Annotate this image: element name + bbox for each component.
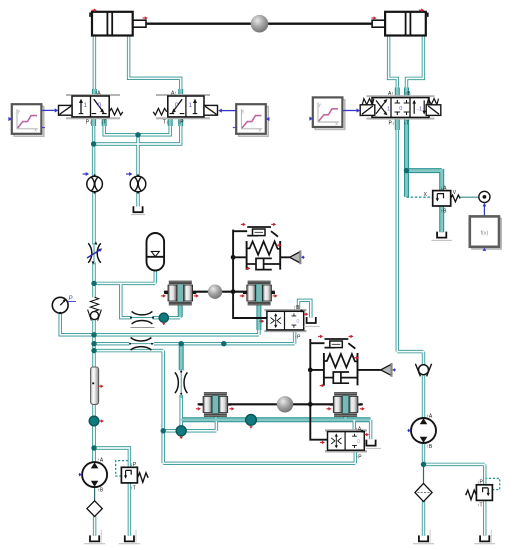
relief valve RV2 body <box>476 485 492 501</box>
svg-text:0: 0 <box>357 439 360 445</box>
wire cylinder2 cap-side to valve V3 port B <box>407 35 424 98</box>
svg-text:P↓: P↓ <box>389 120 395 126</box>
wire pipe element feed <box>92 367 95 370</box>
relief valve RV3 body <box>433 191 451 206</box>
svg-text:A↑: A↑ <box>171 91 177 97</box>
RB2 input marker <box>268 118 271 120</box>
wire orifice OR4 drop to volume <box>179 395 182 431</box>
signal marker of PM2 <box>408 430 409 432</box>
marker arrow at SB2 <box>320 441 323 443</box>
cylinder C1 (double acting) <box>90 12 133 36</box>
ramp source block RB2 <box>236 104 268 136</box>
orifice OR3 (fixed, horizontal) <box>131 338 152 351</box>
svg-text:↑B: ↑B <box>405 91 412 97</box>
marker arrow at C2 body <box>419 9 422 11</box>
tank T7 (pump circuit) <box>90 535 99 541</box>
rod of cylinder C1 (mechanical link) <box>113 20 146 27</box>
tank T6 under RV3 <box>437 232 446 238</box>
valve V1 spring <box>109 108 123 115</box>
svg-text:↓P: ↓P <box>130 462 137 468</box>
svg-text:↑P: ↑P <box>295 335 302 341</box>
signal arrow into F2 <box>395 369 396 371</box>
valve V2 solenoid <box>204 105 218 115</box>
svg-text:0: 0 <box>98 102 102 109</box>
wire CV2 riser <box>422 352 425 365</box>
RB2 aux port <box>233 127 236 129</box>
svg-text:0: 0 <box>296 319 299 325</box>
svg-text:P: P <box>69 296 73 302</box>
wire SB2 port A drop <box>353 420 356 433</box>
tank T1 base <box>131 214 145 216</box>
tank T5 (relief RV2) <box>480 535 489 541</box>
svg-text:P↓: P↓ <box>86 120 92 126</box>
svg-text:↓P: ↓P <box>178 120 185 126</box>
spring SP1 <box>247 241 281 270</box>
valve V1 gray mounts <box>66 94 120 96</box>
wire main down-branch to x163 <box>94 349 163 352</box>
piston block P2R <box>330 392 362 417</box>
ramp source block RB3 <box>313 97 345 129</box>
wire V1 port P to V2 port P (pressure gallery) <box>94 117 181 145</box>
wire P gallery down to flow sensor FS1 <box>92 144 95 177</box>
accumulator AC1 <box>147 233 165 271</box>
wire relief RV2 riser <box>483 464 486 484</box>
valve V1 right cell arrow <box>94 99 103 110</box>
svg-text:V: V <box>453 190 457 196</box>
wire volume node up to piston P1L <box>178 305 181 318</box>
mechanical node line of assembly A2 <box>310 339 327 440</box>
piston block P1L <box>164 281 196 306</box>
wire valve V1 port P stub <box>91 117 96 127</box>
wire SB1 tank link <box>299 300 311 317</box>
valve V3 crossed arrows cell <box>376 99 388 115</box>
baseline under OR2 <box>131 327 155 329</box>
wire tank drop right of SB2 <box>369 420 372 439</box>
link A2 to force source <box>310 369 380 371</box>
valve V1 solenoid <box>59 105 73 115</box>
wire V1 port T to V2 port T (tank gallery) <box>104 117 170 135</box>
orifice OR4 (vertical) <box>175 372 188 393</box>
wire valve V2 port A stub <box>178 89 183 97</box>
flow sensor FS1 <box>87 174 103 194</box>
pipe element PE1 <box>91 367 99 404</box>
pilot line X of relief RV3 (dashed) <box>407 196 433 198</box>
svg-text:↓T: ↓T <box>404 120 410 126</box>
svg-text:↓P: ↓P <box>477 479 484 485</box>
cylinder C2 (double acting, mirrored) <box>385 12 428 36</box>
marker arrow at C1 body <box>92 9 95 11</box>
valve V1 left cell arrow <box>80 102 82 114</box>
wire SB2 port P riser <box>354 450 357 463</box>
marker arrow at PE1 <box>98 385 101 387</box>
wire valve V2 port T stub <box>168 117 173 127</box>
wire cylinder2 rod-side to valve V3 port A <box>389 35 398 98</box>
signal RB2 to valve V2 <box>222 110 237 112</box>
rod through assembly A1 <box>164 291 275 293</box>
tank T2 of SB1 <box>307 317 316 323</box>
valve V3 left solenoid <box>360 105 375 116</box>
spring SP2 <box>324 353 358 385</box>
wire pump PM2 to filter F2 <box>423 466 425 484</box>
wire piston P2R pipe <box>343 416 348 421</box>
RB1 aux port <box>42 127 45 129</box>
wire main line lower section <box>92 404 95 462</box>
marker arrow at D2 <box>320 385 323 387</box>
svg-text:↑T: ↑T <box>477 503 483 509</box>
thin line through OR2 <box>130 317 154 319</box>
wire OR2 to volume node <box>153 316 181 319</box>
relief valve RV1 spring <box>137 473 148 482</box>
signal function block FB1 <box>470 216 501 249</box>
wire filter F1 to tank <box>93 516 96 536</box>
relief valve RV2 spring <box>466 490 477 499</box>
RB1 input marker <box>7 118 10 120</box>
marker arrows at FR1 <box>241 223 244 225</box>
svg-text:T↓: T↓ <box>163 120 169 126</box>
valve V2 gray mounts <box>156 94 210 96</box>
RB3 input marker <box>308 118 311 120</box>
valve V3 left spring <box>362 99 374 105</box>
svg-text:↑B: ↑B <box>426 444 433 450</box>
wire piston P1R pipe <box>256 303 261 330</box>
svg-text:↑P: ↑P <box>356 455 363 461</box>
valve V3 right solenoid <box>426 105 441 116</box>
valve V2 left cell arrow <box>174 99 183 110</box>
friction element FR1 <box>233 227 278 237</box>
wire junction to relief RV2 <box>424 463 485 466</box>
svg-text:↑B: ↑B <box>97 487 104 493</box>
tank T4 (filter F2) <box>419 535 428 541</box>
mass sphere M2 <box>208 285 222 299</box>
wire FS1 down to variable orifice OR1 <box>92 191 95 244</box>
mechanical node line of assembly A1 <box>233 230 267 318</box>
wire valve V1 port A stub <box>92 89 97 97</box>
wire core highlights <box>60 35 485 536</box>
junction nodes <box>91 141 96 146</box>
marker arrows at P2R <box>326 408 329 410</box>
wire main line to piston P1R branch <box>94 333 259 336</box>
valve V2 spring <box>153 108 167 115</box>
svg-text:↑A: ↑A <box>426 414 433 420</box>
orifice OR2 (fixed, horizontal) <box>132 311 153 324</box>
position marker at SB1 <box>304 313 306 315</box>
wire piston P2L pipe <box>214 416 219 421</box>
valve V3 body <box>372 98 429 118</box>
valve V3 blocked centre cell <box>395 100 410 115</box>
friction element FR2 <box>310 339 355 349</box>
svg-text:↑A: ↑A <box>355 426 362 432</box>
piston block P2L <box>199 392 231 417</box>
wire accumulator drop <box>154 270 157 283</box>
marker arrows at P1R <box>240 295 243 297</box>
wire check valve CV1 to main junctions <box>92 320 95 368</box>
pressure gauge PG1 <box>52 297 68 313</box>
svg-text:1: 1 <box>188 102 192 109</box>
svg-text:-1: -1 <box>417 106 422 112</box>
signal RB1 to valve V1 <box>42 109 55 111</box>
wire valve V2 port P stub <box>178 117 183 127</box>
ramp source block RB1 <box>12 104 44 136</box>
signal line block FB1 to S1 <box>483 206 485 216</box>
svg-text:↑B: ↑B <box>441 209 448 215</box>
svg-text:X: X <box>424 192 428 198</box>
wire valve V3 port P stub <box>395 117 400 131</box>
wire tank gallery down to flow sensor FS2 <box>136 135 139 177</box>
wire pump PM2 to junction <box>422 443 425 465</box>
force source F1 (cone) <box>290 252 301 263</box>
piston block P1R <box>243 281 275 306</box>
spool block SB1 (position controlled valve) <box>264 309 306 311</box>
volume node VN2 on main line <box>89 416 99 426</box>
valve V1 body <box>72 96 109 117</box>
wire CV2 to pump PM2 <box>422 375 425 418</box>
svg-text:1: 1 <box>387 106 390 112</box>
pilot line of relief RV2 (dashed) <box>486 478 500 489</box>
marker arrow at C1 rod <box>143 17 146 19</box>
marker arrow at SP2 <box>354 357 357 359</box>
wire main to relief RV1 <box>94 448 129 467</box>
wire pump PM1 feed <box>92 425 95 463</box>
marker arrow at D1 <box>245 267 248 269</box>
wire volume V2b to x163 <box>163 429 216 432</box>
wire valve V3 port P long drop <box>396 117 399 352</box>
wire valve V3 port B stub <box>404 88 409 99</box>
wire cylinder1 rod-side to valve V2 port A <box>129 35 181 97</box>
wire volume link riser <box>215 420 218 431</box>
position marker at SB2 <box>365 434 367 436</box>
damper D2 <box>324 372 358 383</box>
marker arrows at P2L <box>196 408 199 410</box>
marker arrow at SP1 <box>277 244 280 246</box>
wire accumulator branch <box>94 282 155 285</box>
volume node VN1 <box>159 313 168 322</box>
tank T3 of SB2 <box>366 440 375 446</box>
signal marker of PM1 <box>79 474 80 476</box>
speed source S1 (circle with dot) <box>479 191 490 202</box>
wire bottom gallery to SB2 port P <box>163 462 355 465</box>
link A1 to force source <box>233 256 289 258</box>
wire pump PM1 to filter F1 <box>94 487 96 501</box>
wire RV3 port A riser <box>439 169 444 191</box>
valve V3 gray mounts <box>367 95 435 97</box>
variable orifice OR1 <box>88 243 101 263</box>
wire branch to orifice OR2 <box>121 283 132 317</box>
check valve CV1 spring <box>90 297 98 311</box>
valve V3 parallel arrows cell <box>412 100 426 115</box>
wire x163 drop <box>161 351 164 464</box>
svg-text:A↑: A↑ <box>388 91 394 97</box>
svg-text:↓A: ↓A <box>441 185 448 191</box>
tank T8 (relief RV1) <box>125 535 134 541</box>
node dots on A1 <box>231 255 236 260</box>
svg-text:↑A: ↑A <box>95 91 102 97</box>
svg-text:f(x): f(x) <box>481 230 489 236</box>
node dots on A2 <box>308 368 313 373</box>
spring-to-speed-source link of RV3 <box>460 196 479 198</box>
svg-text:↑B: ↑B <box>294 305 301 311</box>
signal arrow of FS1 <box>83 173 87 175</box>
wire cylinder1 cap-side to valve V1 port A <box>93 35 96 97</box>
filter F1 <box>87 501 102 517</box>
input marker of FB1 <box>483 248 487 251</box>
pilot line of relief RV1 (dashed) <box>116 461 129 476</box>
svg-text:↓T: ↓T <box>101 120 107 126</box>
thin line through OR1 <box>93 243 95 265</box>
wire lower gallery y420 <box>181 417 370 422</box>
svg-text:0: 0 <box>399 106 402 112</box>
damper D1 <box>247 258 281 269</box>
wire relief RV1 to tank <box>128 483 131 536</box>
marker arrows at P1L <box>161 295 164 297</box>
flow sensor FS2 <box>130 174 146 194</box>
wire gauge to main line <box>60 313 93 335</box>
signal arrow into F1 <box>303 256 304 258</box>
wire filter F2 to tank <box>422 501 425 536</box>
wire SB1 port P riser <box>293 330 296 344</box>
thin line through OR4 <box>180 369 182 398</box>
wire RV3 port B to tank <box>439 206 444 232</box>
volume node VN3 <box>176 426 186 436</box>
rod through assembly A2 <box>198 403 363 405</box>
wire valve V1 port T stub <box>102 117 107 127</box>
wire OR1 to accumulator junction <box>92 263 95 298</box>
wire main to orifice OR3 <box>94 342 129 345</box>
pump PM1 <box>82 462 107 487</box>
wire T branch to relief RV3 <box>407 168 442 173</box>
spool block SB2 (position controlled valve) <box>325 429 367 431</box>
filter F2 <box>415 483 432 501</box>
marker arrow at C2 rod <box>371 17 374 19</box>
wire valve V3 port A stub <box>395 88 400 99</box>
wire orifice OR4 feed <box>179 344 184 371</box>
marker arrows at FR2 <box>318 335 321 337</box>
signal RB3 to valve V3 <box>342 110 356 112</box>
thin line through OR3 <box>129 343 154 345</box>
valve V2 body <box>168 96 204 117</box>
wire valve V3 port T drop <box>404 117 409 197</box>
valve V3 right spring <box>427 99 439 105</box>
check valve CV1 <box>88 310 102 321</box>
wire relief RV2 to tank <box>483 500 486 536</box>
wire V3 P to check valve CV2 <box>397 350 423 353</box>
wire OR3 to spool block SB1 port P <box>154 342 295 345</box>
volume node VN4 <box>246 415 257 426</box>
relief valve RV1 body <box>121 467 137 483</box>
svg-text:0: 0 <box>175 102 179 109</box>
svg-text:1: 1 <box>83 102 87 109</box>
check valve CV2 <box>415 364 431 377</box>
mass sphere M1 between cylinders <box>251 15 269 33</box>
marker arrow at SB1 <box>259 320 262 322</box>
wire piston P1L pipe <box>178 303 183 317</box>
wire piston P1R drop <box>257 305 260 335</box>
signal arrow of FS2 <box>126 173 130 175</box>
svg-text:↑T: ↑T <box>130 486 136 492</box>
tank T1 under FS2 <box>133 206 142 212</box>
relief valve RV3 spring <box>451 195 460 202</box>
valve V2 right cell arrow <box>194 102 196 114</box>
wire FS2 to tank <box>136 191 139 206</box>
force source F2 (cone) <box>381 364 392 375</box>
pump PM2 <box>411 418 436 443</box>
svg-text:↑A: ↑A <box>97 458 104 464</box>
mass sphere M3 <box>277 396 293 412</box>
rod of cylinder C2 (mechanical link) <box>372 20 405 27</box>
